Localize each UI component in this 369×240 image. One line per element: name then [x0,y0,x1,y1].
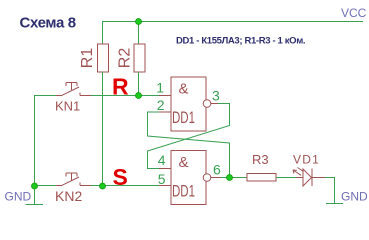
svg-text:KN2: KN2 [55,188,82,204]
ground symbol left [26,186,44,205]
wire pin6 to R3 [221,177,247,179]
node junction top (VCC rail / R2) [136,19,142,25]
svg-text:S: S [113,164,128,190]
svg-text:DD1: DD1 [172,109,195,127]
svg-text:&: & [179,154,189,171]
svg-text:DD1 - К155ЛА3; R1-R3 - 1 кОм.: DD1 - К155ЛА3; R1-R3 - 1 кОм. [176,35,305,46]
svg-text:VCC: VCC [341,6,367,20]
button KN1 [56,83,91,96]
wire gate1 output to gate2 pin4 (cross coupling) [148,104,230,169]
wire gate1 pin2 to gate2 output (cross coupling) [148,112,230,178]
svg-text:R2: R2 [117,48,134,69]
op gate U1b (DD1 NAND bottom) [171,151,211,205]
resistor R1 [98,44,109,72]
svg-text:&: & [179,81,189,98]
diode VD1 (LED) [293,168,325,187]
svg-text:R1: R1 [79,48,96,69]
node GND-left junction [32,183,38,189]
svg-text:4: 4 [158,152,166,168]
pin 1 stub [159,95,171,97]
wire R3 to VD1 [276,177,296,179]
svg-text:GND: GND [341,190,368,204]
wire R2 bottom lead to node R [138,72,140,96]
svg-text:1: 1 [156,80,164,96]
resistor R2 [134,44,145,72]
svg-text:R: R [112,74,129,100]
wire VD1 to GND right [325,178,335,204]
pin 5 stub [159,185,171,187]
pin 4 stub [159,168,171,170]
wire R1 bottom lead down to S rail (crosses R wire) [102,72,104,186]
node S junction [100,183,106,189]
svg-text:5: 5 [158,171,166,187]
svg-text:DD1: DD1 [172,183,195,201]
svg-text:GND: GND [5,190,32,204]
svg-text:R3: R3 [252,152,269,167]
ground symbol right [326,203,343,205]
resistor R3 [247,174,276,182]
svg-text:6: 6 [213,162,221,178]
wire node R horizontal (KN1 to gate pin 1) [91,95,159,97]
pin 3 stub [211,103,218,105]
wire VCC top rail [103,22,364,45]
svg-text:VD1: VD1 [293,153,320,167]
wire node S horizontal (KN2 to gate pin 5) [91,185,159,187]
svg-text:2: 2 [157,97,165,113]
svg-text:3: 3 [212,88,220,104]
op gate U1a (DD1 NAND top) [171,77,211,131]
node R junction [136,93,142,99]
button KN2 [56,173,91,186]
GND rail bottom left [35,185,57,187]
pin 2 stub [159,111,171,113]
node output junction [227,175,233,181]
wire R2 top lead [138,22,140,45]
svg-text:Схема 8: Схема 8 [20,15,76,32]
svg-text:KN1: KN1 [55,99,80,114]
pin 6 stub [211,177,221,179]
wire KN1 left vertical to GND rail [35,96,57,187]
